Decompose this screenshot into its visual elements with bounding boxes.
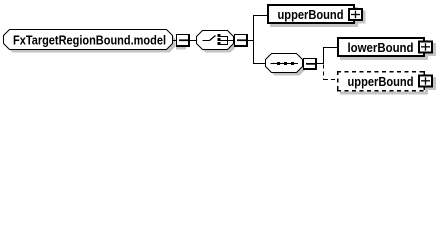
branch line 2 (vertical dashed, to optional upperBound): [323, 65, 325, 81]
expand handle (minus) on sequence: [303, 58, 317, 70]
element box upperBound (top): [270, 7, 358, 27]
wire branch to sequence: [254, 63, 267, 65]
sequence icon: line: [271, 63, 299, 65]
element box lowerBound: [340, 40, 428, 60]
wire branch to upperBound (top): [254, 15, 268, 17]
choice icon: stub: [203, 40, 210, 42]
choice compositor: [197, 31, 237, 53]
optional element box upperBound (dashed): [337, 71, 436, 95]
svg-text:upperBound: upperBound: [278, 7, 344, 22]
svg-text:FxTargetRegionBound.model: FxTargetRegionBound.model: [13, 33, 166, 48]
choice icon: contact lines: [221, 36, 228, 38]
element box FxTargetRegionBound.model: [4, 30, 176, 53]
branch line 2 (vertical solid, to lowerBound): [323, 47, 325, 64]
choice icon: contacts: [218, 34, 221, 37]
wire choice handle to branch: [248, 40, 254, 42]
expand handle (plus) on upperBound (top): [348, 8, 363, 21]
svg-text:lowerBound: lowerBound: [348, 40, 414, 55]
wire element box to its expand handle: [173, 40, 177, 42]
wire sequence handle to branch 2: [317, 63, 324, 65]
svg-text:upperBound: upperBound: [348, 74, 414, 89]
choice icon: switch arm: [210, 36, 216, 41]
sequence icon: dots: [277, 62, 280, 65]
expand handle (plus) on lowerBound: [418, 41, 433, 54]
wire branch 2 to lowerBound: [324, 47, 338, 49]
expand handle (minus) on choice: [234, 34, 248, 47]
branch line 1 (vertical): [253, 15, 255, 64]
wire branch 2 to optional upperBound (dashed): [324, 79, 337, 81]
choice icon: exit line: [228, 40, 234, 42]
expand handle (plus) on optional upperBound: [418, 75, 433, 88]
sequence compositor: [266, 54, 306, 76]
choice icon: bus: [227, 36, 229, 45]
expand handle (minus) on FxTargetRegionBound.model: [176, 34, 190, 50]
wire handle to choice compositor: [190, 40, 197, 42]
